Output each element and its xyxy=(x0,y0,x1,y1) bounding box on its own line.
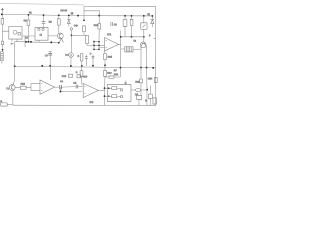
resistor R10 x99.2 xyxy=(98,16,100,24)
wire riser x14.6 to mid rail xyxy=(14,42,16,67)
node dot x60.5 y91.5 xyxy=(60,87,82,91)
node dot left bus xyxy=(1,13,3,15)
wire T1b to R18 xyxy=(15,87,20,89)
resistor R17 below rail x105 xyxy=(104,65,106,88)
op-amp IC2b xyxy=(83,83,98,97)
resistor R21 horizontal xyxy=(105,76,120,78)
capacitor C6 above rail x86.3 xyxy=(85,55,87,66)
zener diode D5 below bus xyxy=(68,15,70,26)
box small B xyxy=(149,86,151,106)
wire riser x147 xyxy=(146,68,148,106)
svg-text:R17: R17 xyxy=(107,72,112,75)
wire lamp to rail xyxy=(70,57,72,66)
wire riser x71.3 xyxy=(70,30,72,52)
resistor R14 above rail x81.8 xyxy=(81,61,83,66)
svg-text:(1): (1) xyxy=(147,14,150,16)
pin square 2 inside box xyxy=(121,96,123,98)
capacitor C1 small left column xyxy=(1,41,3,44)
wire mid rail xyxy=(15,66,156,68)
op-amp IC2a xyxy=(40,80,55,94)
node dot bus x68.8 xyxy=(68,14,70,16)
wire y35.4 to R9 xyxy=(71,34,87,36)
buzzer BZ1 hatched box xyxy=(125,47,133,52)
wire rail A top feedback xyxy=(84,5,156,7)
wire riser x141 xyxy=(140,68,142,96)
small square inside U1 xyxy=(18,33,20,35)
node dot x71.3 y35.3 xyxy=(71,34,73,36)
svg-text:CI: CI xyxy=(40,34,43,37)
capacitor C8 series xyxy=(76,85,78,89)
wire T1b emitter down xyxy=(12,90,14,105)
capacitor C2 below bus xyxy=(43,15,45,21)
resistor R12 below bus x131.5 xyxy=(131,16,133,37)
pin squares inside U2 xyxy=(38,29,40,31)
resistor R18 xyxy=(20,86,26,89)
wires T2 legs to rail xyxy=(141,50,147,67)
node dot x99.2 bus xyxy=(98,15,100,17)
resistor R7 x84 xyxy=(83,26,86,32)
capacitor C5 label marks xyxy=(111,22,113,26)
svg-text:R16: R16 xyxy=(108,56,113,59)
diode D6 bottom right xyxy=(131,89,135,91)
node dot left mid xyxy=(2,49,4,51)
svg-text:R22: R22 xyxy=(135,81,140,84)
transistor T1b xyxy=(9,85,15,91)
terminal circle TP1 xyxy=(70,28,72,30)
IC U2 box xyxy=(35,28,48,41)
node dot bus end x78 xyxy=(77,15,79,17)
wire rail to IC2a top xyxy=(49,66,51,80)
wire main top bus xyxy=(2,14,153,16)
node dot mid rail x70.9 xyxy=(70,65,72,67)
svg-text:IC1: IC1 xyxy=(107,32,112,36)
diode box D2 x143.8 xyxy=(143,16,145,37)
transistor T1 xyxy=(57,33,63,39)
potentiometer P1 left edge xyxy=(1,52,4,61)
svg-text:D5-16: D5-16 xyxy=(61,9,68,12)
resistor R2 below bus xyxy=(27,20,30,26)
resistor R11 below bus x125 xyxy=(124,16,126,37)
capacitor C9b above rail x93 xyxy=(92,55,94,66)
wire IC1 output xyxy=(118,31,124,78)
resistor R20 top feedback xyxy=(77,75,81,78)
wire right rail xyxy=(155,7,157,106)
wire to box row1 xyxy=(105,87,112,89)
node dot bus x28.4 xyxy=(28,14,30,16)
svg-text:(4): (4) xyxy=(71,13,74,15)
node + input terminal xyxy=(1,8,4,11)
resistor R1 left column xyxy=(1,19,4,25)
wire bottom rail xyxy=(13,104,156,106)
node dot bus x58.8 xyxy=(58,14,60,16)
resistor R16 above rail x105 xyxy=(103,51,106,65)
capacitor C7 mid xyxy=(49,51,51,65)
svg-text:R18: R18 xyxy=(21,83,26,86)
resistor R23 row2 inside box xyxy=(112,95,117,98)
wire rail B xyxy=(84,11,100,16)
node dots row y42 xyxy=(25,41,27,43)
node dots y36.8 xyxy=(120,36,122,38)
border top xyxy=(0,3,84,5)
node dot mid rail x14.7 xyxy=(14,65,16,67)
IC U1 box with meter xyxy=(9,26,22,39)
box small A xyxy=(137,95,142,99)
junction cluster xyxy=(94,40,105,50)
meter circle inside U1 xyxy=(13,30,17,34)
wire R18 to IC2a xyxy=(26,84,40,91)
wire left column xyxy=(2,11,9,64)
node dot x84 y20.3 xyxy=(83,19,85,21)
op-amp IC1 xyxy=(105,38,119,52)
pin square 1 inside box xyxy=(121,89,123,91)
wire row y42 xyxy=(15,42,59,43)
pin stubs below U1 xyxy=(12,39,17,42)
svg-text:R: R xyxy=(145,99,147,102)
resistor R9 xyxy=(86,36,89,44)
wire riser x84 down from rails xyxy=(83,6,85,20)
wire riser x28.4 xyxy=(27,15,29,42)
resistor R22b on riser xyxy=(140,79,143,83)
wire to box row2 xyxy=(105,95,112,97)
resistor R22 row1 inside box xyxy=(112,87,117,90)
wire IC2b out xyxy=(98,89,104,91)
wire T1b collector up xyxy=(13,66,15,84)
svg-text:R19: R19 xyxy=(83,75,88,78)
diode D3 x152.3 xyxy=(151,16,153,27)
wire feedback verticals xyxy=(80,66,82,71)
svg-text:C10: C10 xyxy=(62,75,67,78)
IC U3 big box bottom right xyxy=(107,84,131,101)
svg-text:9V: 9V xyxy=(114,69,117,72)
capacitor C9 series xyxy=(60,85,62,89)
resistor R6 below bus xyxy=(58,15,60,33)
node dot mid rail x42.2 xyxy=(41,65,43,67)
svg-text:R21: R21 xyxy=(114,73,119,76)
svg-text:IC2: IC2 xyxy=(89,101,93,104)
node dot bus x43.5 xyxy=(43,14,45,16)
wire IC2a out xyxy=(54,86,59,88)
wire y36.8 top right xyxy=(121,36,144,38)
lamp LP1 xyxy=(69,53,74,58)
wire U1 to U2 xyxy=(22,36,35,47)
transistor T2 xyxy=(140,42,146,48)
svg-text:R24: R24 xyxy=(148,77,153,80)
wire feedback chain x104.6 xyxy=(104,88,106,105)
